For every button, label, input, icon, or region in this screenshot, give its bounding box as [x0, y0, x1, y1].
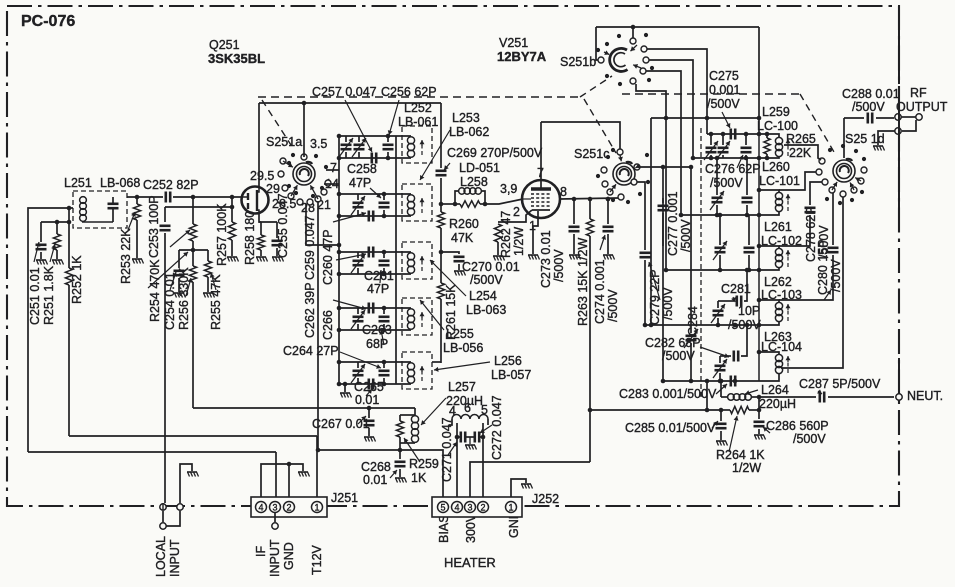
ground heater caps	[465, 437, 477, 450]
resistor R263 15K 1/2W	[586, 199, 593, 462]
vlabel R254 470K	[148, 259, 162, 322]
ground R257	[227, 257, 239, 262]
svg-text:S251a: S251a	[266, 135, 302, 149]
wire Q251 drain up to top rail	[258, 103, 260, 188]
label C256 62P	[381, 85, 437, 99]
dashed diagonal to S251d	[800, 94, 834, 152]
arrow C279 label	[648, 262, 660, 300]
vlabel LOCAL	[154, 536, 168, 577]
svg-text:1: 1	[508, 503, 513, 513]
svg-text:C277 0.001: C277 0.001	[666, 191, 680, 256]
ground pin1	[528, 255, 540, 260]
ground C273	[569, 255, 581, 260]
svg-text:R253 22K: R253 22K	[119, 228, 133, 284]
heater pin 4	[449, 404, 456, 418]
inductor L251 LB-068 dashed box	[73, 191, 127, 228]
label J252	[532, 492, 559, 506]
wire S251a contact 7 to bus	[326, 169, 339, 171]
wire J252 pin1 ground bracket	[511, 479, 526, 497]
capacitor C251 0.01	[36, 222, 47, 259]
capacitor C288 0.01/500V	[868, 113, 872, 124]
inductor L258 with damping resistor LD-051	[453, 188, 488, 207]
wire filter sec4 top rail	[337, 306, 411, 311]
tube cathode	[532, 209, 550, 211]
vlabel IF	[254, 546, 268, 557]
vlabel C271 0.047	[440, 417, 454, 482]
terminal RF OUT c	[895, 120, 916, 134]
wire S251a contact 14 to bus	[324, 183, 339, 185]
capacitor series sec5 on bottom rail	[369, 379, 373, 390]
arrow R254 label	[170, 230, 190, 247]
vlabel C280 15P	[816, 239, 830, 295]
label 47P c261	[367, 282, 389, 296]
svg-text:2: 2	[286, 503, 291, 513]
label 1K r259	[411, 471, 427, 485]
vlabel C255 0.047	[276, 193, 290, 258]
wire S251b contact to v681	[646, 71, 681, 215]
svg-text:V251: V251	[499, 36, 528, 50]
wire AGC bracket y250	[179, 248, 208, 253]
Q251 designator	[209, 38, 240, 52]
svg-text:R255 47K: R255 47K	[209, 274, 223, 330]
wire J252 pin5 riser BIAS	[400, 450, 443, 497]
svg-text:C268: C268	[361, 460, 391, 474]
svg-text:2: 2	[480, 503, 485, 513]
rotary switch S251c	[596, 148, 650, 204]
svg-text:Q251: Q251	[209, 38, 240, 52]
arrow C280 label	[824, 290, 831, 300]
vlabel BIAS	[437, 515, 451, 544]
wire rail B2 y215	[679, 211, 779, 217]
wire feed rail drop to rail5	[650, 118, 652, 325]
label C281	[721, 282, 751, 296]
capacitor C257 0.047 series	[372, 153, 376, 164]
svg-text:C267 0.01: C267 0.01	[312, 417, 370, 431]
label L262	[764, 275, 792, 289]
vlabel R263 15K 1/2W	[576, 238, 590, 326]
label C252 82P	[143, 178, 199, 192]
svg-text:C273 0.01: C273 0.01	[539, 230, 553, 288]
wire C282 riser	[741, 323, 749, 356]
svg-text:C264 27P: C264 27P	[283, 344, 339, 358]
resistor R254 470K	[189, 195, 196, 250]
solid right border segment top	[898, 8, 900, 84]
label C276 62P	[705, 162, 761, 176]
wire bias bus y452	[28, 451, 276, 453]
dashed shield line left	[258, 96, 580, 98]
label C265	[354, 380, 384, 394]
svg-text:C282 68P: C282 68P	[645, 336, 701, 350]
svg-text:LB-061: LB-061	[398, 115, 438, 129]
wire C283 rail left drop	[706, 381, 708, 410]
wire S251c right contact feed	[640, 167, 663, 381]
vlabel 300V	[464, 513, 478, 543]
ground R251	[52, 260, 64, 265]
connector J251 pin 1	[312, 502, 323, 513]
arrow R259 label	[404, 438, 420, 462]
svg-text:NEUT.: NEUT.	[907, 389, 943, 403]
capacitor C285 0.01/500V	[716, 410, 727, 440]
label R260	[449, 217, 479, 231]
label 68P c263	[366, 337, 388, 351]
svg-text:/500V: /500V	[829, 259, 843, 292]
wire pin 1 lead	[533, 211, 538, 254]
resistor R260 47K	[437, 204, 444, 254]
tube pin 1	[529, 219, 536, 233]
wire L264 to NEUT	[757, 395, 816, 410]
svg-text:RF: RF	[910, 86, 927, 100]
svg-text:C275: C275	[709, 69, 739, 83]
label /500V c282	[662, 349, 695, 363]
wire plate pin7 to S251c	[541, 122, 620, 149]
vlabel T12V	[310, 544, 324, 575]
wire filter sec4 bottom rail	[337, 328, 411, 333]
vlabel C251 0.01	[28, 267, 42, 325]
V251 designator	[499, 36, 528, 50]
svg-text:/500V: /500V	[710, 176, 743, 190]
label C270 0.01	[462, 260, 520, 274]
trimmer capacitor sec1 a	[339, 136, 353, 158]
capacitor C279 22P/500V	[640, 253, 651, 328]
tube plate	[531, 122, 551, 189]
coil L263	[775, 354, 782, 373]
svg-text:1: 1	[314, 503, 319, 513]
label C257 0.047	[312, 85, 377, 99]
wire L258 to tube grid	[485, 199, 523, 204]
band 29.5	[250, 169, 274, 183]
vlabel R258 180	[243, 211, 257, 265]
wire rail to L264 left	[719, 379, 724, 397]
coil box sec5	[402, 352, 432, 389]
title PC-076	[21, 13, 75, 30]
svg-text:C261: C261	[364, 269, 394, 283]
wire J251 pin1 riser	[316, 436, 318, 497]
coil sec3	[407, 253, 424, 274]
terminal LOCAL INPUT lower	[160, 511, 180, 529]
label C269 270P/500V	[447, 146, 543, 160]
svg-text:5: 5	[440, 503, 445, 513]
terminal RF OUT a	[895, 114, 901, 120]
svg-text:6: 6	[464, 401, 471, 415]
capacitor C267 0.01	[364, 406, 375, 436]
vlabel INPUT local	[168, 539, 182, 577]
wire Q251 source down	[259, 213, 277, 222]
wire S251a contact 28 drop	[306, 204, 341, 247]
terminal LOCAL INPUT b	[177, 504, 183, 510]
label /500V c270	[470, 273, 503, 287]
svg-text:C287 5P/500V: C287 5P/500V	[799, 377, 881, 391]
wire filter sec1 top rail	[337, 134, 411, 139]
vlabel R252 1K	[70, 255, 84, 304]
arrow R256 label	[186, 278, 192, 296]
svg-text:R257 100K: R257 100K	[215, 203, 229, 266]
label L257	[448, 380, 476, 394]
arrow R264 label	[729, 416, 739, 452]
wire heater pin5 drop to J252 pin2	[482, 423, 484, 497]
band 14	[325, 177, 339, 191]
label C285 0.01/500V	[625, 421, 716, 435]
connector J251 pin 3	[270, 502, 281, 513]
label 0.001 c275	[709, 83, 740, 97]
svg-text:INPUT: INPUT	[168, 539, 182, 577]
svg-text:LC-100: LC-100	[757, 119, 798, 133]
svg-text:GND: GND	[282, 542, 296, 570]
label LC-104	[761, 340, 802, 354]
connector J252 pin 2	[478, 502, 489, 513]
vlabel /500V c273	[552, 249, 566, 282]
wire stub L262 top	[757, 298, 779, 303]
resistor R251 1.8K	[53, 220, 60, 259]
svg-text:L258: L258	[460, 175, 488, 189]
capacitor C286 560P/500V	[754, 410, 765, 434]
svg-text:C260 47P: C260 47P	[321, 229, 335, 285]
vlabel C262 39P	[303, 282, 317, 338]
capacitor C273 0.01/500V	[569, 199, 580, 254]
capacitor C282 68P/500V	[720, 351, 738, 362]
label C275	[709, 69, 739, 83]
trimmer capacitor sec1 b	[352, 136, 366, 158]
svg-text:3SK35BL: 3SK35BL	[208, 51, 265, 66]
arrow R255 label	[210, 273, 216, 290]
svg-text:1/2W: 1/2W	[732, 461, 761, 475]
wire stub L263 top	[757, 350, 779, 355]
capacitor fixed sec3	[379, 250, 390, 277]
label C261	[364, 269, 394, 283]
svg-text:47P: 47P	[367, 282, 389, 296]
label L259	[762, 105, 790, 119]
trimmer capacitor R5	[713, 356, 727, 383]
inductor L257 220uH	[400, 415, 419, 443]
svg-text:C272 0.047: C272 0.047	[490, 395, 504, 460]
svg-text:PC-076: PC-076	[21, 13, 75, 30]
wire R261 bottom into sec5 rail	[432, 361, 441, 363]
band 29	[266, 182, 280, 196]
wire v759 down to feed rail	[758, 27, 760, 134]
wire filter sec5 bottom rail	[337, 382, 411, 387]
vlabel C253 100P	[147, 195, 161, 258]
wire pin8 bus	[560, 197, 618, 202]
wire left filter bus x339	[338, 136, 340, 384]
coil tap dashed arrow	[786, 194, 791, 211]
tube pin 8	[560, 185, 567, 199]
wire LOCAL shield bracket	[180, 464, 192, 503]
arrow C274 label	[600, 235, 606, 250]
svg-text:1K: 1K	[411, 471, 427, 485]
ground C270	[454, 271, 466, 276]
label /500V c276	[710, 176, 743, 190]
ground C267	[364, 437, 376, 442]
vlabel C274 0.001	[593, 259, 607, 324]
vlabel R261 15K	[444, 284, 458, 340]
wire rail down to S251b left contact	[596, 27, 598, 60]
svg-text:68P: 68P	[366, 337, 388, 351]
svg-text:L251: L251	[64, 176, 92, 190]
svg-text:LD-051: LD-051	[459, 161, 500, 175]
svg-text:L262: L262	[764, 275, 792, 289]
svg-text:L253: L253	[452, 111, 480, 125]
coil box sec2	[402, 184, 432, 221]
wire C287 to NEUT terminal	[828, 396, 894, 398]
trimmer capacitor R1 a	[704, 132, 718, 161]
band 21	[317, 198, 331, 212]
svg-text:S251c: S251c	[574, 147, 609, 161]
wire grid lead pin 3,9	[523, 198, 531, 200]
svg-text:3: 3	[467, 503, 472, 513]
wire R259 bottom node	[398, 443, 403, 459]
svg-text:2: 2	[513, 205, 520, 219]
wire RF OUT ground lead	[878, 131, 895, 145]
switch label S251c	[574, 147, 609, 161]
svg-text:J251: J251	[331, 491, 358, 505]
wire T12V bus y436	[69, 435, 317, 437]
switch label S251a	[266, 135, 302, 149]
arrow C271 label	[448, 442, 457, 455]
arrow C281 label	[731, 297, 736, 302]
wire C288 to RF OUT	[876, 117, 894, 119]
capacitor C287 5P/500V	[820, 392, 824, 403]
arrow C254 label	[170, 272, 177, 290]
wire S251b contact to v693	[649, 60, 693, 158]
svg-text:L254: L254	[469, 289, 497, 303]
dashed diagonal S251b left	[580, 76, 612, 97]
vlabel GND if	[282, 542, 296, 570]
svg-text:C251 0.01: C251 0.01	[28, 267, 42, 325]
label C268	[361, 460, 391, 474]
svg-text:R251 1.8K: R251 1.8K	[42, 265, 56, 325]
resistor R255 47K	[204, 250, 211, 292]
capacitor C275 0.001/500V series on rail1	[731, 129, 735, 140]
vlabel /500V c277	[679, 219, 693, 252]
svg-text:C269 270P/500V: C269 270P/500V	[447, 146, 543, 160]
tube pin 7	[537, 166, 544, 180]
resistor R256 330K	[189, 250, 196, 408]
arrow L255 label	[420, 300, 444, 330]
svg-text:/500V: /500V	[852, 100, 885, 114]
arrow C260 label to series cap	[336, 252, 366, 260]
arrow C264 label to sec5	[340, 352, 381, 369]
vlabel R256 330K	[177, 267, 191, 330]
resistor R258 180	[257, 222, 264, 256]
resistor R259 1K	[396, 415, 403, 443]
svg-text:/500V: /500V	[793, 432, 826, 446]
label LB-063	[466, 303, 506, 317]
Q251 type 3SK35BL	[208, 51, 265, 66]
label LB-057	[491, 368, 531, 382]
svg-text:S251b: S251b	[560, 55, 596, 69]
coil tap dashed arrow	[786, 356, 791, 373]
label L256	[494, 354, 522, 368]
wire L258 left	[441, 203, 455, 205]
coil L260	[775, 192, 782, 211]
ground RF OUT	[873, 146, 885, 151]
svg-text:LB-062: LB-062	[449, 125, 489, 139]
vlabel /500V c279	[661, 287, 675, 320]
wire filter sec1 bottom rail	[337, 156, 411, 161]
svg-text:4: 4	[258, 503, 263, 513]
arrow C253 label	[148, 252, 188, 288]
coil tap dashed arrow	[786, 250, 791, 267]
svg-text:12BY7A: 12BY7A	[497, 49, 547, 64]
label 0.01 c265	[355, 393, 379, 407]
label C288 0.01	[842, 87, 900, 101]
label C287 5P/500V	[799, 377, 881, 391]
arrow L254 label pointing	[430, 260, 466, 296]
svg-text:L264: L264	[761, 383, 789, 397]
wire top rail corner down x441	[440, 103, 442, 168]
capacitor series sec3 on top rail	[369, 247, 373, 258]
switch label S251d	[845, 132, 885, 146]
label L264	[761, 383, 789, 397]
wire L251 left lead down to bus	[28, 208, 73, 452]
band 28.5	[272, 197, 296, 211]
svg-text:LB-068: LB-068	[100, 176, 140, 190]
coil sec1	[407, 137, 424, 158]
capacitor C269 270P/500V	[436, 171, 447, 207]
arrow L256 label	[434, 362, 490, 372]
label HEATER	[444, 555, 496, 570]
svg-text:29.5: 29.5	[250, 169, 274, 183]
coil box sec1	[402, 126, 432, 163]
svg-text:47K: 47K	[451, 231, 474, 245]
vlabel C260 47P	[321, 229, 335, 285]
svg-text:R265: R265	[786, 132, 816, 146]
coil tap dashed arrow	[786, 139, 791, 156]
wire S251b contact to v707	[647, 49, 709, 134]
svg-text:R259: R259	[409, 457, 439, 471]
label 1/2W r264	[732, 461, 761, 475]
capacitor C268 0.01	[395, 462, 406, 477]
label C267 0.01	[312, 417, 370, 431]
svg-text:LOCAL: LOCAL	[154, 536, 168, 577]
coil L262	[775, 302, 782, 321]
ground LOCAL shield	[187, 472, 199, 477]
inductor L264 220uH	[721, 394, 759, 401]
arrow C283 label	[716, 384, 727, 394]
connector J251 pin 2	[284, 502, 295, 513]
trimmer capacitor R3	[713, 213, 727, 273]
label LB-068	[100, 176, 140, 190]
heater pin 6	[464, 401, 471, 415]
vlabel C277 0.001	[666, 191, 680, 256]
wire feed rail y118	[651, 116, 761, 121]
svg-text:R264 1K: R264 1K	[716, 448, 765, 462]
ground J252 pin1	[521, 484, 533, 489]
svg-text:L259: L259	[762, 105, 790, 119]
vlabel GND j252	[507, 510, 521, 538]
heater pin 5	[481, 403, 488, 417]
wire mid filter bus x396	[395, 136, 397, 384]
svg-text:INPUT: INPUT	[268, 539, 282, 577]
tube pins 3,9	[500, 182, 517, 196]
svg-text:/500V: /500V	[470, 273, 503, 287]
label 0.01 c268	[363, 473, 387, 487]
ground C255	[272, 257, 284, 262]
wire C284 branch	[661, 165, 694, 333]
capacitor inside L251	[82, 197, 119, 222]
svg-text:L257: L257	[448, 380, 476, 394]
trimmer capacitor C284	[684, 329, 698, 383]
arrow C268 label	[390, 470, 397, 478]
wire C281 riser	[744, 268, 749, 301]
label C283 0.001/500V	[619, 387, 717, 401]
wire AGC line y408	[193, 407, 415, 409]
arrow C287 label	[817, 389, 822, 394]
label L258	[460, 175, 488, 189]
label OUTPUT	[896, 100, 948, 114]
svg-text:/500V: /500V	[606, 289, 620, 322]
wire B+ to J252 pin3	[470, 462, 590, 497]
terminal LOCAL INPUT a	[160, 504, 166, 510]
